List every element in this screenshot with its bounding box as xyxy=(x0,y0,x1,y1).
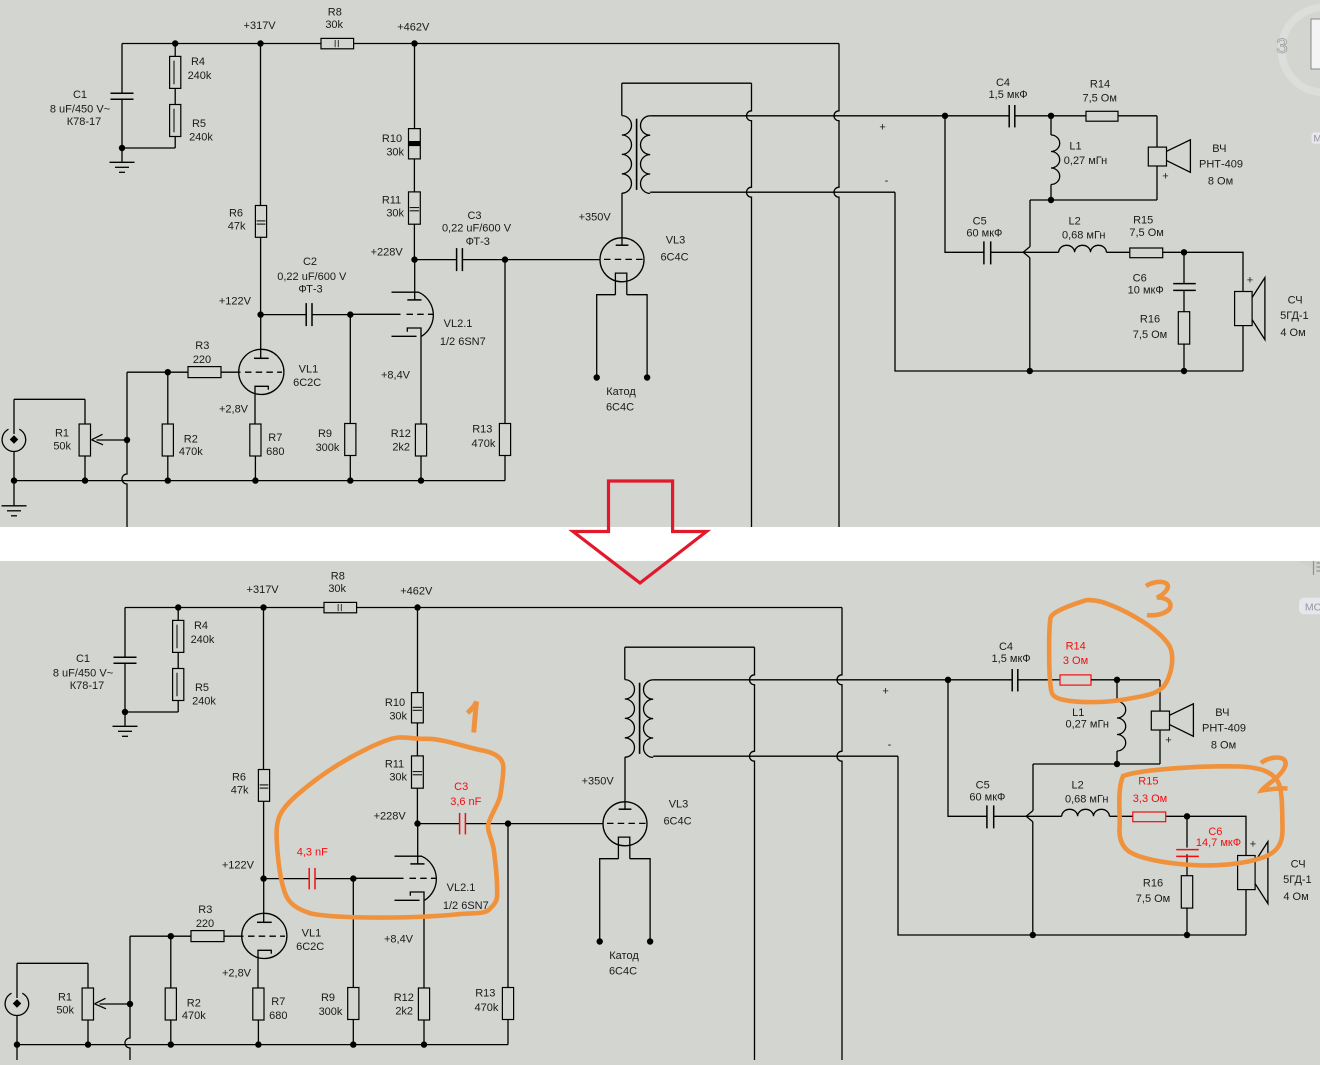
wire: +228V to VL2.1 anode xyxy=(417,824,419,864)
node: +228V junction xyxy=(411,256,417,262)
resistor R14 xyxy=(1086,111,1118,121)
VL1 anode plate xyxy=(254,357,269,359)
tube VL1 envelope xyxy=(239,349,284,394)
wire: secondary - lead xyxy=(650,191,895,193)
node: ground bus at R1 xyxy=(82,477,88,483)
resistor R8 xyxy=(324,602,357,612)
svg-text:R11: R11 xyxy=(385,759,404,771)
wire: L1 top lead xyxy=(1050,116,1052,135)
wire: R12 bottom xyxy=(420,456,422,481)
wire: VL3 anode lead from transformer xyxy=(621,193,623,245)
svg-text:R14: R14 xyxy=(1066,641,1086,653)
wire: R5 bottom xyxy=(174,137,176,149)
ground symbol at input xyxy=(13,481,15,506)
svg-text:7,5 Ом: 7,5 Ом xyxy=(1082,92,1116,104)
svg-text:+317V: +317V xyxy=(247,584,280,596)
transformer T1 primary winding xyxy=(625,680,635,758)
node: ground bus at R12 xyxy=(421,1041,427,1047)
svg-text:10 мкФ: 10 мкФ xyxy=(1128,285,1164,297)
svg-text:0,22 uF/600 V: 0,22 uF/600 V xyxy=(277,271,347,283)
input jack J1 xyxy=(2,429,26,451)
resistor R1 potentiometer xyxy=(79,424,90,456)
svg-text:300k: 300k xyxy=(316,442,340,454)
wire: C4 out xyxy=(1015,115,1051,117)
wire: R12 bottom xyxy=(423,1020,425,1045)
wire: + rail to C4 xyxy=(948,679,1012,681)
capacitor C2 (0,22uF) xyxy=(305,303,307,326)
wire: +122V to C2 xyxy=(261,314,307,316)
svg-text:C4: C4 xyxy=(999,641,1013,653)
svg-text:+350V: +350V xyxy=(582,775,615,787)
wire: R13 bottom xyxy=(504,456,506,481)
svg-text:R7: R7 xyxy=(268,432,282,444)
wire: secondary - lead xyxy=(653,755,898,757)
wire: C2 to VL2.1 grid node xyxy=(312,314,350,316)
inductor L2 xyxy=(1023,251,1058,253)
resistor R2 xyxy=(162,424,173,456)
svg-text:R9: R9 xyxy=(321,992,335,1004)
resistor R16 xyxy=(1178,312,1189,344)
svg-text:6C2C: 6C2C xyxy=(293,377,321,389)
svg-text:R3: R3 xyxy=(198,904,212,916)
transformer T1 secondary winding xyxy=(644,680,654,758)
svg-text:R13: R13 xyxy=(472,423,492,435)
ground symbol at input xyxy=(16,1045,18,1065)
svg-text:4 Ом: 4 Ом xyxy=(1283,891,1308,903)
svg-text:3 Ом: 3 Ом xyxy=(1063,655,1088,667)
inductor L2 xyxy=(1026,815,1062,817)
ground symbol below C1 xyxy=(124,712,126,726)
wire: VL2.1 grid lead xyxy=(350,313,400,315)
wire: C6 to R16 xyxy=(1183,290,1185,311)
wire: C5 to fan junction xyxy=(991,251,1023,253)
node: ground bus at R2 xyxy=(168,1041,174,1047)
svg-text:+: + xyxy=(1162,171,1168,183)
transformer T1 secondary winding xyxy=(641,116,651,194)
node: C3/R13 junction xyxy=(505,820,511,826)
orange digit 2 xyxy=(1261,758,1288,791)
svg-text:0,68 мГн: 0,68 мГн xyxy=(1065,793,1108,805)
capacitor C1 xyxy=(111,92,134,94)
wire: +228V to VL2.1 anode xyxy=(414,260,416,300)
node: C1 ground junction xyxy=(119,145,125,151)
node: bottom rail left xyxy=(1027,368,1033,374)
svg-text:R10: R10 xyxy=(382,133,402,145)
wire: R11 to +228V node xyxy=(413,224,415,259)
wire: feedback drop with hop over ground xyxy=(125,1004,130,1065)
capacitor C6 replaced 14,7 мкФ (red) xyxy=(1176,849,1199,851)
wire: R1 bottom xyxy=(84,456,86,481)
node: +122V anode junction xyxy=(260,875,266,881)
node: L1 bottom junction xyxy=(1114,761,1120,767)
UI corner shade xyxy=(1297,561,1320,572)
svg-text:7,5 Ом: 7,5 Ом xyxy=(1136,893,1170,905)
resistor R7 xyxy=(253,988,264,1020)
resistor R4 xyxy=(170,56,181,88)
VL2.1 anode plate xyxy=(410,863,424,865)
node: C4 junction xyxy=(942,113,948,119)
svg-text:R4: R4 xyxy=(191,56,205,68)
svg-text:4 Ом: 4 Ом xyxy=(1280,327,1305,339)
VL2.1 grid (dashed) xyxy=(410,877,437,879)
svg-text:8 Ом: 8 Ом xyxy=(1211,739,1236,751)
svg-text:C2: C2 xyxy=(303,256,317,268)
node: R15/C6 junction xyxy=(1181,249,1187,255)
wire: rail to R4 xyxy=(174,44,176,57)
transformer T1 core xyxy=(636,119,638,190)
node: R16 ground junction xyxy=(1181,368,1187,374)
wire: rail corner drop at right with crossing hops xyxy=(837,608,842,1065)
svg-text:+2,8V: +2,8V xyxy=(222,968,252,980)
svg-text:+350V: +350V xyxy=(579,211,612,223)
wire: input top link xyxy=(17,962,88,964)
wire: +462V to R10 xyxy=(414,44,416,129)
svg-text:L1: L1 xyxy=(1069,141,1081,153)
wire: C5 drop from + rail xyxy=(948,680,987,817)
wire: node to MF speaker xyxy=(1184,252,1243,291)
svg-text:-: - xyxy=(888,739,892,751)
svg-text:R7: R7 xyxy=(271,996,285,1008)
wire: ground bus xyxy=(17,1044,508,1046)
svg-text:30k: 30k xyxy=(389,711,407,723)
svg-text:R11: R11 xyxy=(382,195,401,207)
svg-text:VL1: VL1 xyxy=(299,364,319,376)
wire: into input jack xyxy=(16,963,18,998)
wire: C4 to red R14 xyxy=(1054,679,1061,681)
svg-text:30k: 30k xyxy=(325,19,343,31)
wire: VL3 anode lead from transformer xyxy=(624,757,626,809)
resistor R10 xyxy=(412,693,424,723)
node: VL2.1 grid junction xyxy=(350,875,356,881)
svg-text:R1: R1 xyxy=(55,428,69,440)
node: +122V anode junction xyxy=(257,311,263,317)
wire: HF speaker bottom link xyxy=(1156,166,1158,200)
wire: C2 to VL2.1 grid node xyxy=(315,878,353,880)
node: ground bus at R12 xyxy=(418,477,424,483)
resistor R3 xyxy=(191,931,224,942)
svg-text:VL3: VL3 xyxy=(669,799,689,811)
VL3 anode plate xyxy=(619,808,632,810)
wire: node down to C6 xyxy=(1186,816,1188,847)
wire: primary top lead xyxy=(621,83,623,115)
wire: VL2.1 grid lead xyxy=(353,877,403,879)
wire: R9 hanger xyxy=(349,315,351,424)
VL3 grid (dashed) xyxy=(604,258,643,260)
svg-text:R10: R10 xyxy=(385,697,405,709)
wire: top +462V supply rail xyxy=(125,607,842,609)
svg-text:+228V: +228V xyxy=(374,811,407,823)
wire: jack to ground xyxy=(16,1016,18,1045)
wire: +317V drop to R6 xyxy=(260,44,262,206)
wire: into input jack xyxy=(13,399,15,434)
node: +317V junction xyxy=(257,40,263,46)
input jack J1 xyxy=(5,993,29,1015)
resistor R6 xyxy=(255,206,266,238)
svg-text:R6: R6 xyxy=(232,771,246,783)
VL2.1 grid (dashed) xyxy=(407,313,434,315)
wire: R5 bottom xyxy=(177,701,179,713)
wire: bus corner down xyxy=(1032,764,1034,811)
wire: link down to R1 xyxy=(84,399,86,424)
svg-text:470k: 470k xyxy=(182,1010,206,1022)
wire: C5 to fan junction xyxy=(994,815,1026,817)
wire: R16 bottom xyxy=(1183,344,1185,371)
tube VL2.1 envelope xyxy=(395,856,437,900)
wire: red R14 to L1 node xyxy=(1091,679,1121,681)
VL3 cathode fork xyxy=(618,837,629,859)
svg-text:4,3 nF: 4,3 nF xyxy=(297,847,328,859)
svg-text:470k: 470k xyxy=(179,446,203,458)
svg-text:5ГД-1: 5ГД-1 xyxy=(1283,874,1312,886)
node: ground bus at R2 xyxy=(165,477,171,483)
svg-text:6C4C: 6C4C xyxy=(663,815,691,827)
node: VL2.1 grid junction xyxy=(347,311,353,317)
svg-text:К78-17: К78-17 xyxy=(67,116,102,128)
wire: R2 bottom xyxy=(167,456,169,481)
svg-text:C3: C3 xyxy=(467,210,481,222)
svg-text:М: М xyxy=(1314,133,1320,144)
capacitor C4 xyxy=(1011,669,1013,691)
wire: input top link xyxy=(14,398,85,400)
wire: R16 bottom xyxy=(1186,908,1188,935)
svg-text:R8: R8 xyxy=(331,570,345,582)
wire: wiper line xyxy=(100,1003,131,1005)
svg-text:C1: C1 xyxy=(73,89,87,101)
svg-text:R14: R14 xyxy=(1090,79,1110,91)
wire: MF speaker bottom xyxy=(1242,326,1244,371)
wire: transformer top link xyxy=(625,646,755,648)
svg-text:R12: R12 xyxy=(391,428,411,440)
wire: R3 to VL1 grid xyxy=(224,935,244,937)
node: +462V junction xyxy=(414,604,420,610)
node: wiper junction xyxy=(124,437,130,443)
marks inside R8 xyxy=(337,604,339,611)
wire: C4 out xyxy=(1018,679,1054,681)
node: L1 top junction xyxy=(1048,113,1054,119)
wire: R13 hanger xyxy=(507,824,509,988)
wire: C3 to VL3 grid xyxy=(463,259,601,261)
wire: rail corner drop at right with crossing hops xyxy=(834,44,839,559)
speaker ВЧ РНТ-409 xyxy=(1151,711,1169,730)
svg-text:+2,8V: +2,8V xyxy=(219,404,249,416)
svg-text:ФТ-3: ФТ-3 xyxy=(466,236,490,248)
tube VL1 envelope xyxy=(242,913,287,958)
wire: R6 to VL1 anode node xyxy=(260,237,262,314)
svg-text:6С4С: 6С4С xyxy=(609,966,637,978)
wire: primary bottom lead (+350V) xyxy=(621,192,623,194)
wire: +228V to C3 xyxy=(415,259,457,261)
VL1 anode plate xyxy=(257,921,272,923)
wire: HF speaker drop xyxy=(1159,680,1161,711)
wire: rail to R4 xyxy=(177,608,179,621)
UI small icon xyxy=(1313,561,1315,575)
svg-text:ВЧ: ВЧ xyxy=(1212,143,1226,155)
wire: minus rail corner xyxy=(895,192,1243,371)
svg-text:ВЧ: ВЧ xyxy=(1215,707,1229,719)
svg-text:3,3 Ом: 3,3 Ом xyxy=(1133,793,1167,805)
orange loop 1 around VL2.1/C3 stage xyxy=(277,737,504,917)
wire: +462V to R10 xyxy=(417,608,419,693)
svg-text:+462V: +462V xyxy=(397,21,430,33)
svg-text:СЧ: СЧ xyxy=(1291,858,1306,870)
resistor R11 xyxy=(412,756,424,788)
capacitor C3 position replaced 3,6 nF (red) xyxy=(459,813,461,835)
wire: R14 out segment xyxy=(1118,115,1157,117)
orange digit 1 xyxy=(468,702,477,733)
terminal dot cathode right xyxy=(647,938,653,944)
resistor R4 xyxy=(173,620,184,652)
svg-text:C4: C4 xyxy=(996,77,1010,89)
svg-text:47k: 47k xyxy=(231,785,249,797)
wire: R15 to node xyxy=(1163,251,1184,253)
svg-text:0,27 мГн: 0,27 мГн xyxy=(1065,719,1108,731)
svg-text:VL2.1: VL2.1 xyxy=(447,882,476,894)
svg-text:3,6 nF: 3,6 nF xyxy=(450,796,481,808)
node: ground bus at R9 xyxy=(350,1041,356,1047)
tube VL3 envelope xyxy=(600,238,644,282)
UI faint ring xyxy=(1282,8,1320,93)
svg-text:R1: R1 xyxy=(58,992,72,1004)
svg-text:C6: C6 xyxy=(1133,272,1147,284)
svg-text:R4: R4 xyxy=(194,620,208,632)
node: ground bus at R9 xyxy=(347,477,353,483)
svg-text:300k: 300k xyxy=(319,1006,343,1018)
svg-text:РНТ-409: РНТ-409 xyxy=(1199,158,1243,170)
wire: VL1 anode lead xyxy=(263,879,265,923)
svg-text:ФТ-3: ФТ-3 xyxy=(298,284,322,296)
svg-text:R2: R2 xyxy=(187,998,201,1010)
wire: link down to R1 xyxy=(87,963,89,988)
node: R2 top junction xyxy=(168,933,174,939)
wire: HF speaker drop xyxy=(1156,116,1158,147)
svg-text:+: + xyxy=(882,686,888,698)
svg-text:470k: 470k xyxy=(474,1002,498,1014)
svg-text:8 uF/450 V~: 8 uF/450 V~ xyxy=(53,668,113,680)
svg-text:Катод: Катод xyxy=(609,950,639,962)
svg-text:R8: R8 xyxy=(328,6,342,18)
wire: HF speaker bottom link xyxy=(1159,730,1161,764)
svg-text:+: + xyxy=(1247,275,1253,287)
node: ground bus at R1 xyxy=(85,1041,91,1047)
wire: C1 bottom to ground node xyxy=(121,99,123,148)
red arrow (schematic replaced by) xyxy=(573,481,707,583)
capacitor C4 xyxy=(1008,105,1010,127)
svg-text:60 мкФ: 60 мкФ xyxy=(969,792,1005,804)
wire: R11 to +228V node xyxy=(416,788,418,823)
wire: jack to ground xyxy=(13,452,15,481)
VL2.1 cathode xyxy=(410,892,424,988)
node: +317V junction xyxy=(260,604,266,610)
separator band xyxy=(0,527,1320,561)
svg-text:+8,4V: +8,4V xyxy=(384,934,414,946)
wire: corner to wiper xyxy=(126,372,128,440)
resistor R15 xyxy=(1130,248,1163,258)
svg-text:220: 220 xyxy=(196,918,214,930)
resistor R15 (red, 3,3 Ом) xyxy=(1133,812,1166,822)
svg-text:К78-17: К78-17 xyxy=(70,680,105,692)
wire: C3 to VL3 grid xyxy=(466,823,604,825)
svg-text:VL2.1: VL2.1 xyxy=(444,318,473,330)
resistor R10 xyxy=(409,129,421,159)
wire: R1 bottom xyxy=(87,1020,89,1045)
wire: L1 bottom lead xyxy=(1050,185,1052,201)
svg-text:30k: 30k xyxy=(386,147,404,159)
terminal dot cathode right xyxy=(644,374,650,380)
svg-text:6C4C: 6C4C xyxy=(660,251,688,263)
node: R16 ground junction xyxy=(1184,932,1190,938)
svg-text:R5: R5 xyxy=(195,682,209,694)
resistor R12 xyxy=(418,988,429,1020)
wire: + rail to C4 xyxy=(945,115,1009,117)
svg-text:R3: R3 xyxy=(195,340,209,352)
wire: C4 node to R14 xyxy=(1051,115,1086,117)
svg-text:+122V: +122V xyxy=(219,296,252,308)
svg-text:+122V: +122V xyxy=(222,860,255,872)
wire: R10-R11 link xyxy=(413,159,415,192)
resistor R11 xyxy=(409,192,421,224)
UI МС pill xyxy=(1299,598,1320,615)
resistor R9 xyxy=(345,424,356,456)
node: bottom rail left xyxy=(1030,932,1036,938)
node: rail/R4 junction xyxy=(172,40,178,46)
capacitor C1 xyxy=(114,656,137,658)
capacitor C6 (10мкФ) xyxy=(1173,283,1196,285)
wire: long vertical from transformer top with hops xyxy=(750,647,755,1065)
wire: L1 bottom bus xyxy=(1033,763,1160,765)
svg-text:R15: R15 xyxy=(1133,214,1153,226)
wire: L1 top lead xyxy=(1116,680,1118,702)
capacitor C2 position replaced 4,3 nF (red) xyxy=(308,868,310,890)
wire: R10-R11 link xyxy=(416,723,418,756)
wire: rail to C1 top plate xyxy=(121,44,123,94)
resistor R5 xyxy=(170,105,181,137)
svg-text:+462V: +462V xyxy=(400,585,433,597)
wire: R13 bottom xyxy=(507,1020,509,1045)
inductor L1 xyxy=(1051,135,1060,185)
wire: C1/R5 bottom link xyxy=(125,711,178,713)
tube VL3 envelope xyxy=(603,802,647,846)
VL3 anode plate xyxy=(616,244,629,246)
wire: rail to C1 top plate xyxy=(124,608,126,658)
svg-text:R6: R6 xyxy=(229,207,243,219)
wire: C6 to R16 xyxy=(1186,854,1188,875)
marks inside R8 xyxy=(334,40,336,47)
wire: minus rail corner xyxy=(898,756,1246,935)
wire: R2 riser xyxy=(167,372,169,424)
UI М pill xyxy=(1312,132,1320,143)
svg-text:8 Ом: 8 Ом xyxy=(1208,175,1233,187)
VL3 grid (dashed) xyxy=(607,822,646,824)
wire: grid bus to R3 xyxy=(127,371,188,373)
wire: R7 bottom xyxy=(257,1020,259,1045)
orange loop 3 around red R14 xyxy=(1049,600,1172,702)
speaker СЧ 5ГД-1 xyxy=(1238,856,1256,890)
wire: node down to C6 xyxy=(1183,252,1185,283)
svg-text:6C2C: 6C2C xyxy=(296,941,324,953)
resistor R12 xyxy=(415,424,426,456)
resistor R16 xyxy=(1181,876,1192,908)
resistor R3 xyxy=(188,367,221,378)
svg-text:14,7 мкФ: 14,7 мкФ xyxy=(1196,837,1241,849)
svg-text:8 uF/450 V~: 8 uF/450 V~ xyxy=(50,104,110,116)
resistor R5 xyxy=(173,669,184,701)
svg-text:680: 680 xyxy=(269,1010,287,1022)
node: C4 junction xyxy=(945,677,951,683)
VL1 grid (dashed) xyxy=(245,371,282,373)
wiper arrow of R1 xyxy=(92,434,104,445)
inductor L1 (moved) xyxy=(1117,702,1126,752)
wire: +228V to C3 xyxy=(418,823,460,825)
